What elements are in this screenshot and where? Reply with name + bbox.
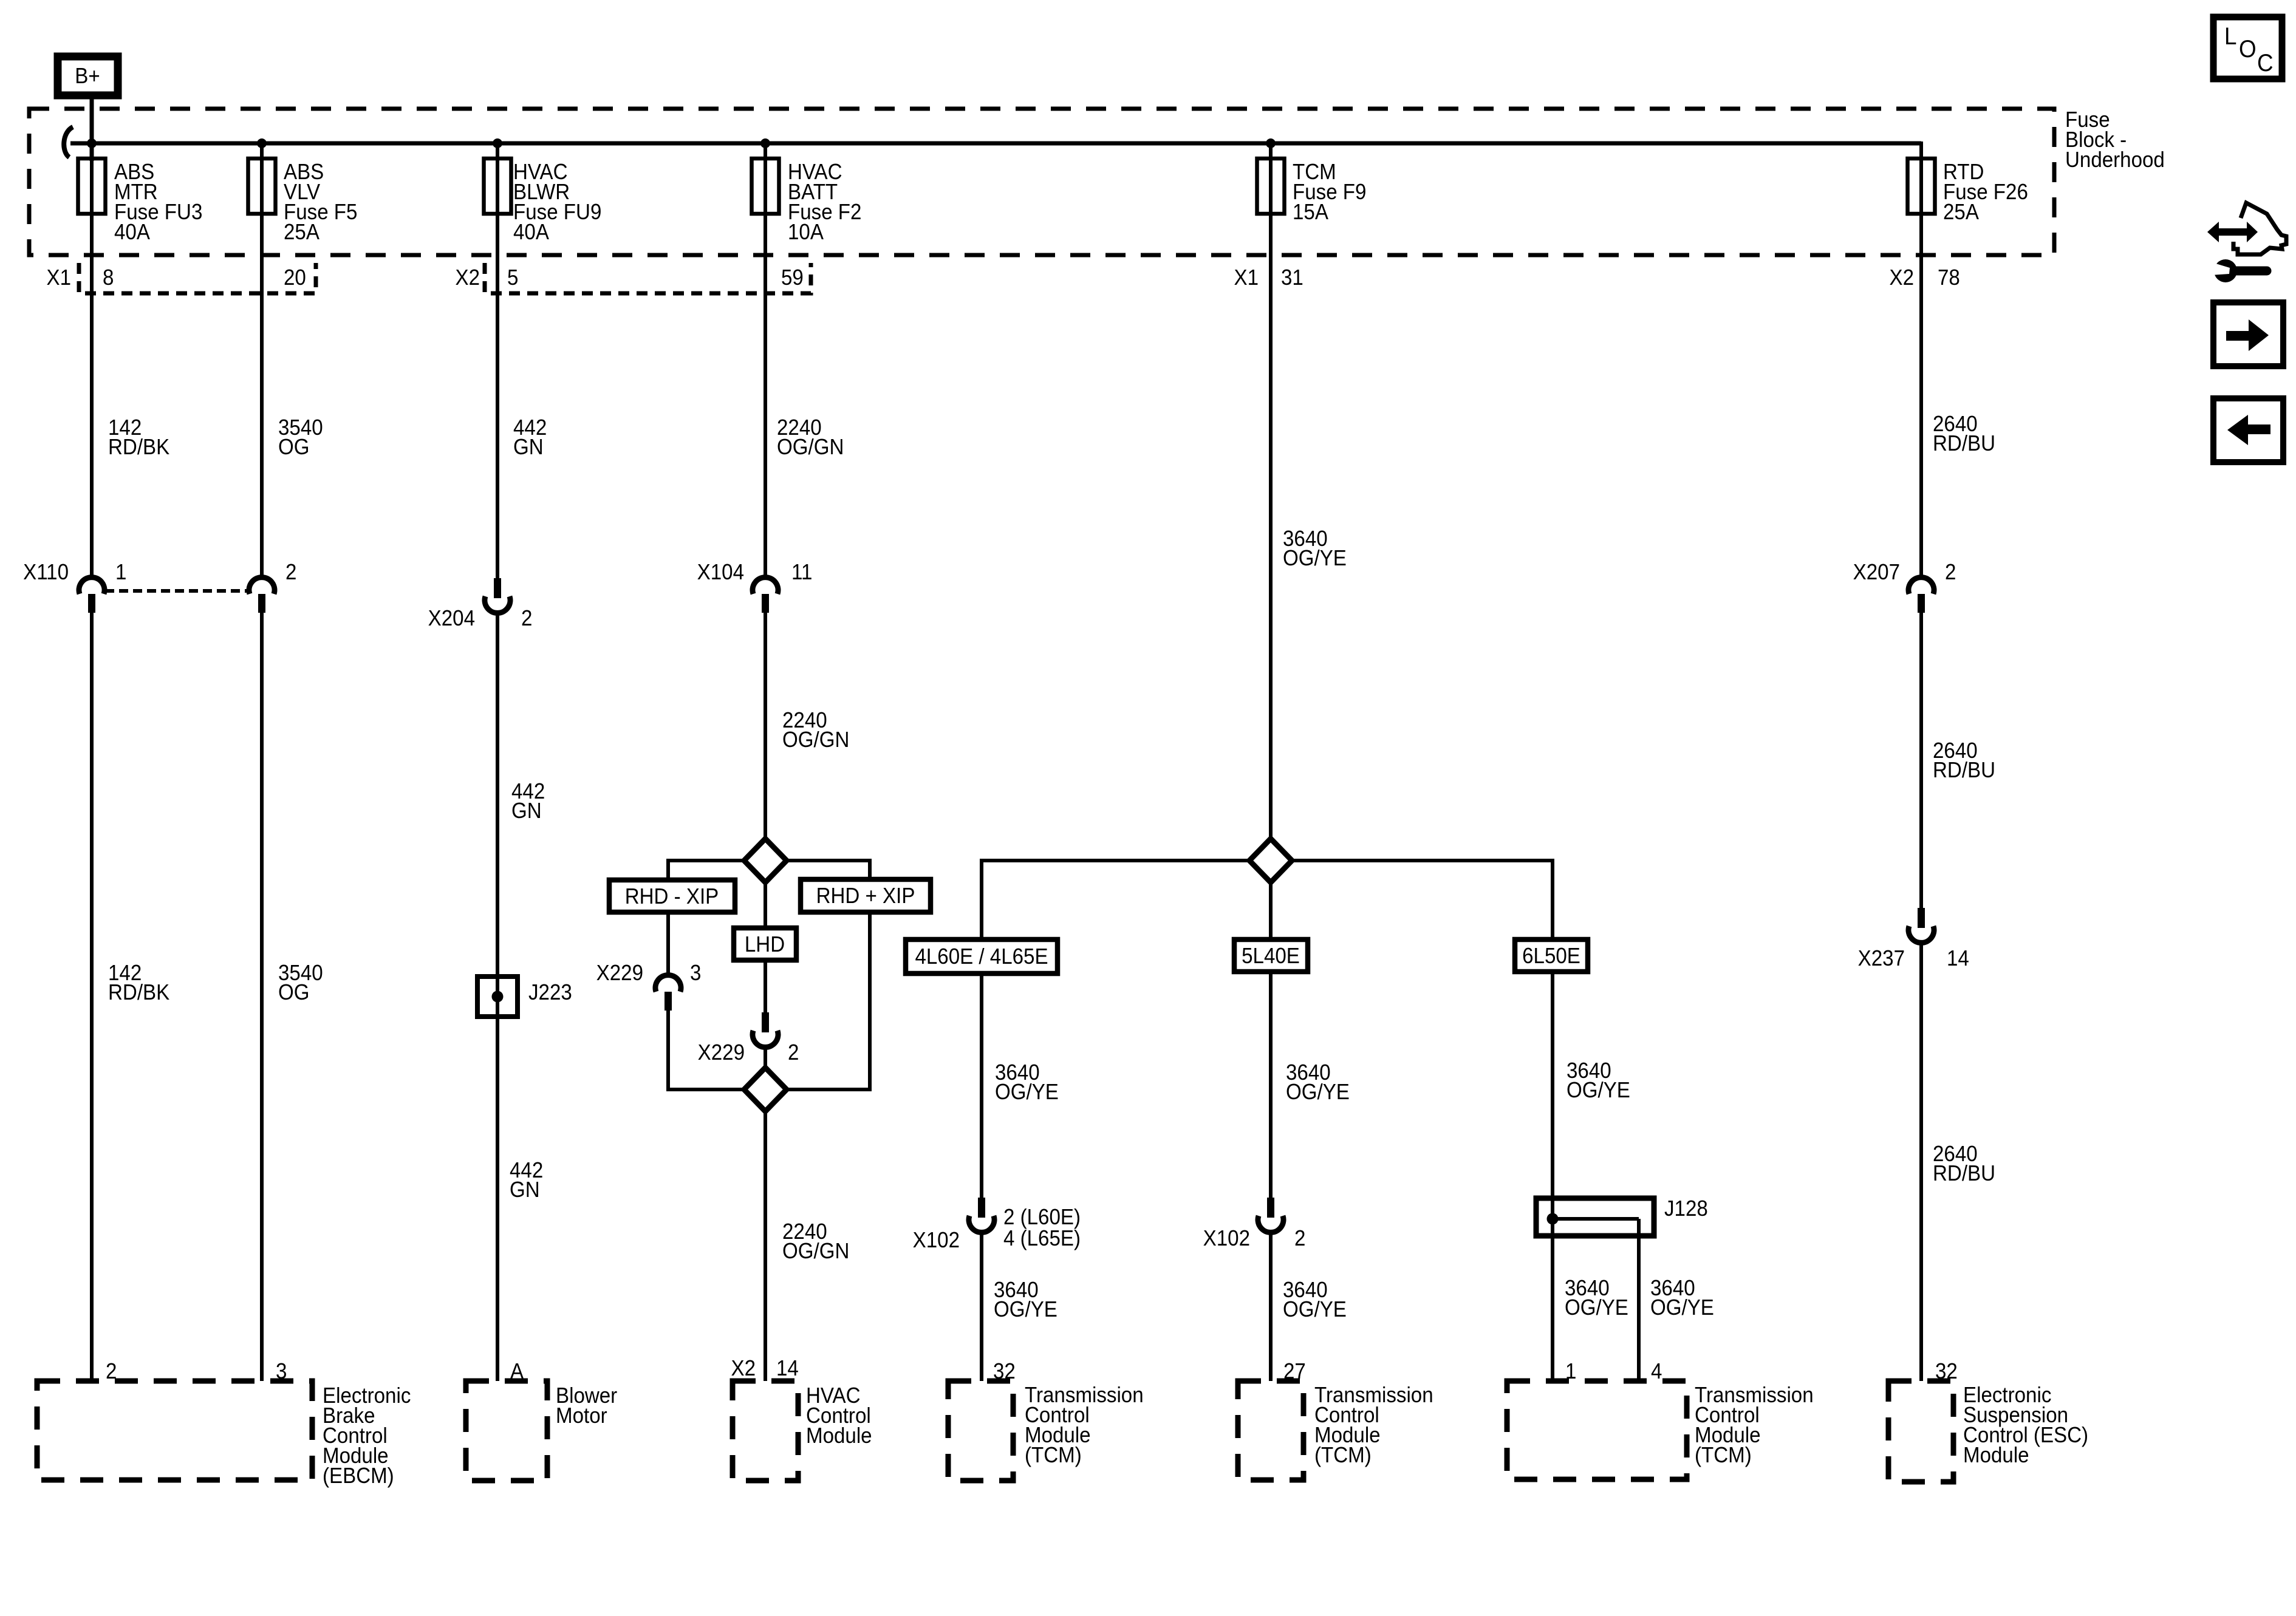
svg-text:11: 11 (791, 561, 812, 585)
svg-text:RHD - XIP: RHD - XIP (625, 885, 719, 909)
wire X229-3 to lower junction (666, 1011, 670, 1091)
fuse F5 ABS VLV 25A (248, 159, 276, 214)
fuse FU9 HVAC BLWR 40A (484, 159, 511, 214)
node branch diamond lower (744, 1068, 787, 1111)
module HVAC Control Module box (733, 1381, 798, 1481)
svg-text:RD/BU: RD/BU (1933, 1162, 1995, 1186)
svg-text:(TCM): (TCM) (1695, 1444, 1752, 1468)
svg-text:GN: GN (511, 799, 542, 823)
svg-text:(TCM): (TCM) (1314, 1444, 1372, 1468)
wire 3640 OG/YE TCM feed (1269, 141, 1273, 939)
svg-text:59: 59 (781, 266, 804, 290)
svg-text:2: 2 (788, 1041, 799, 1065)
svg-text:O: O (2239, 36, 2257, 63)
svg-text:8: 8 (103, 266, 114, 290)
svg-text:OG: OG (278, 981, 310, 1005)
svg-text:2: 2 (1945, 561, 1956, 585)
svg-text:OG/YE: OG/YE (1565, 1296, 1628, 1320)
icon wrench (2234, 267, 2267, 276)
fuse block - underhood dashed border (29, 109, 2054, 255)
connector X204 pin 2 (494, 578, 501, 598)
connector X110 pin 2 (249, 578, 275, 594)
svg-text:J128: J128 (1664, 1197, 1708, 1221)
wire LHD to X229 (764, 960, 767, 1014)
module TCM 6L50E box (1507, 1381, 1687, 1479)
svg-text:OG/GN: OG/GN (782, 1239, 849, 1264)
wire 142 RD/BK upper (90, 160, 94, 579)
svg-text:OG/GN: OG/GN (782, 728, 849, 752)
svg-text:B+: B+ (75, 64, 100, 89)
svg-text:(EBCM): (EBCM) (323, 1464, 394, 1488)
svg-text:X102: X102 (1203, 1227, 1250, 1251)
svg-text:X204: X204 (428, 607, 475, 631)
module TCM 4L60E box (948, 1381, 1013, 1481)
wire 2240 OG/GN to branch diamond (764, 613, 767, 928)
svg-text:4L60E / 4L65E: 4L60E / 4L65E (915, 945, 1048, 969)
svg-text:RD/BU: RD/BU (1933, 432, 1995, 456)
svg-text:X237: X237 (1858, 947, 1905, 971)
box 5L40E (1234, 939, 1308, 972)
svg-text:Module: Module (1963, 1444, 2029, 1468)
svg-text:LHD: LHD (745, 933, 785, 957)
svg-text:X110: X110 (23, 561, 69, 585)
svg-text:OG/YE: OG/YE (995, 1080, 1059, 1105)
module EBCM box (37, 1381, 312, 1480)
node bus junction HVAC BLWR (493, 138, 502, 148)
svg-text:OG/YE: OG/YE (1286, 1080, 1350, 1105)
icon double arrow (2207, 222, 2258, 242)
svg-text:3: 3 (690, 961, 701, 986)
wire 3640 OG/YE 4L60E branch (980, 973, 983, 1198)
connector X102 pins 2/4 (978, 1198, 985, 1218)
wire 3640 OG/YE to TCM 32 (980, 1232, 983, 1381)
svg-text:14: 14 (1947, 947, 1969, 971)
wire 3640 OG/YE 6L50E branch (1551, 972, 1554, 1381)
svg-text:31: 31 (1281, 266, 1303, 290)
wire 3640 OG/YE to TCM 27 (1269, 1232, 1273, 1381)
svg-text:X1: X1 (47, 266, 71, 290)
svg-text:2: 2 (1294, 1227, 1305, 1251)
connector X102 pin 2 (1267, 1198, 1274, 1218)
wire 2640 RD/BU lower (1919, 942, 1923, 1381)
svg-text:X2: X2 (1890, 266, 1914, 290)
svg-text:5: 5 (507, 266, 518, 290)
svg-text:C: C (2257, 50, 2274, 77)
svg-text:20: 20 (284, 266, 306, 290)
svg-text:GN: GN (510, 1178, 540, 1202)
svg-text:X1: X1 (1234, 266, 1259, 290)
connector X104 pin 11 (753, 578, 778, 594)
wire transmission branch horizontal (982, 859, 1553, 862)
wire lower junction horizontal (668, 1088, 870, 1091)
wire RHD - XIP drop (666, 859, 670, 882)
icon forward arrow box (2213, 302, 2283, 366)
connector X237 pin 14 (1918, 908, 1925, 928)
module Blower Motor box (466, 1381, 547, 1481)
svg-text:X2: X2 (731, 1357, 756, 1381)
svg-text:25A: 25A (284, 220, 319, 245)
svg-text:X207: X207 (1853, 561, 1900, 585)
svg-text:Motor: Motor (556, 1404, 607, 1428)
svg-text:X104: X104 (697, 561, 744, 585)
wire 2640 RD/BU middle (1919, 613, 1923, 908)
connector X2 dashed bracket (485, 263, 811, 293)
wire 2240 OG/GN upper (764, 141, 767, 579)
splice J223 (477, 977, 518, 1017)
wire 3540 OG upper (260, 141, 264, 579)
wire 442 GN middle (496, 611, 499, 1381)
wire 3640 OG/YE 5L40E branch (1269, 972, 1273, 1198)
wire B+ lead (90, 95, 94, 161)
wire RHD + XIP drop (868, 859, 872, 881)
node bus junction HVAC BATT (760, 138, 770, 148)
B+ power feed box (58, 56, 118, 95)
svg-text:OG/GN: OG/GN (777, 435, 844, 460)
svg-text:X229: X229 (698, 1041, 745, 1065)
svg-text:RHD + XIP: RHD + XIP (816, 884, 915, 909)
fuse F2 HVAC BATT 10A (752, 159, 779, 214)
svg-text:Module: Module (806, 1424, 872, 1448)
icon back arrow box (2213, 398, 2283, 462)
node branch diamond TCM (1249, 839, 1292, 882)
svg-text:6L50E: 6L50E (1522, 944, 1580, 969)
svg-text:40A: 40A (114, 220, 150, 245)
node bus junction B+/ABS MTR (87, 138, 97, 148)
svg-text:L: L (2224, 23, 2236, 50)
svg-text:OG/YE: OG/YE (1650, 1296, 1714, 1320)
svg-text:RD/BU: RD/BU (1933, 759, 1995, 783)
connector X229 pin 3 (655, 975, 681, 992)
svg-text:OG/YE: OG/YE (1283, 547, 1347, 571)
connector X229 pin 2 (762, 1012, 769, 1032)
wire 2240 OG/GN to HVAC control module (764, 1045, 767, 1381)
wire RHD branch horizontal upper (668, 859, 870, 862)
module ESC box (1888, 1381, 1953, 1482)
svg-text:4 (L65E): 4 (L65E) (1003, 1227, 1081, 1251)
box 4L60E / 4L65E (906, 939, 1057, 973)
svg-text:X102: X102 (913, 1229, 960, 1253)
svg-text:(TCM): (TCM) (1025, 1444, 1082, 1468)
svg-text:5L40E: 5L40E (1242, 944, 1300, 969)
svg-text:X2: X2 (456, 266, 480, 290)
box 6L50E (1515, 939, 1588, 972)
svg-text:OG/YE: OG/YE (1567, 1079, 1630, 1103)
svg-text:1: 1 (115, 561, 126, 585)
module TCM 5L40E box (1238, 1381, 1303, 1480)
svg-text:15A: 15A (1293, 200, 1328, 225)
svg-text:4: 4 (1651, 1360, 1662, 1384)
svg-text:2: 2 (521, 607, 532, 631)
svg-text:14: 14 (776, 1357, 799, 1381)
box LHD (734, 928, 796, 960)
wire 6L50E drop (1551, 859, 1554, 939)
svg-text:X229: X229 (596, 961, 643, 986)
wire 142 RD/BK lower (90, 613, 94, 1381)
wire 4L60E drop (980, 859, 983, 939)
wire RHD + XIP to lower junction (868, 912, 872, 1091)
node bus junction TCM (1266, 138, 1276, 148)
svg-text:RD/BK: RD/BK (108, 435, 169, 460)
icon car body outline (2233, 203, 2286, 254)
svg-text:25A: 25A (1943, 200, 1979, 225)
bus curl symbol (64, 127, 73, 157)
wire B+ bus (70, 141, 1921, 146)
svg-text:RD/BK: RD/BK (108, 981, 169, 1005)
connector X1 dashed bracket (79, 263, 316, 293)
splice pack J128 (1536, 1198, 1654, 1236)
svg-text:GN: GN (513, 435, 544, 460)
connector X110 pin 1 (79, 578, 104, 594)
svg-text:78: 78 (1938, 266, 1960, 290)
box RHD - XIP (609, 880, 735, 912)
svg-text:OG/YE: OG/YE (994, 1298, 1057, 1322)
svg-text:2: 2 (285, 561, 296, 585)
connector X110 dashed link (105, 589, 248, 593)
node branch diamond upper (744, 839, 787, 882)
connector X207 pin 2 (1908, 578, 1934, 594)
svg-text:Underhood: Underhood (2065, 148, 2165, 172)
svg-text:OG: OG (278, 435, 310, 460)
svg-text:2 (L60E): 2 (L60E) (1003, 1205, 1081, 1230)
wire RHD - XIP to X229 (666, 912, 670, 977)
wire 442 GN upper (496, 141, 499, 579)
box RHD + XIP (801, 879, 931, 912)
svg-text:OG/YE: OG/YE (1283, 1298, 1347, 1322)
fuse F9 TCM 15A (1257, 159, 1285, 214)
wire 3640 OG/YE to TCM 4 (1637, 1219, 1641, 1381)
fuse FU3 ABS MTR 40A (78, 159, 106, 214)
LOC reference box (2213, 17, 2282, 79)
svg-text:10A: 10A (788, 220, 824, 245)
node bus junction ABS VLV (257, 138, 267, 148)
svg-text:40A: 40A (513, 220, 549, 245)
svg-text:J223: J223 (528, 981, 572, 1005)
wire 3540 OG lower (260, 613, 264, 1381)
fuse F26 RTD 25A (1908, 159, 1935, 214)
wire 2640 RD/BU upper (1919, 141, 1923, 579)
